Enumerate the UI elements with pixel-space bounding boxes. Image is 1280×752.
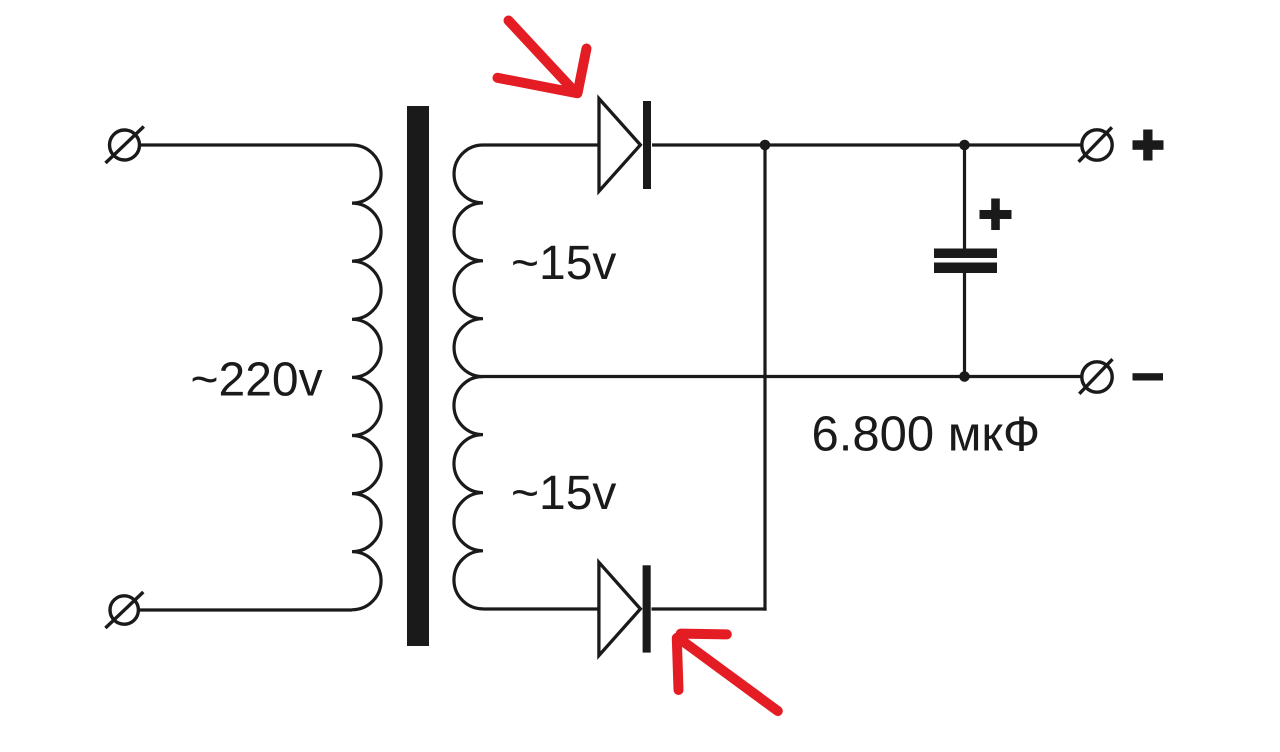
svg-text:~220v: ~220v (191, 354, 323, 407)
svg-text:6.800 мкФ: 6.800 мкФ (812, 408, 1041, 462)
svg-text:~15v: ~15v (511, 237, 616, 290)
svg-text:~15v: ~15v (511, 467, 616, 520)
